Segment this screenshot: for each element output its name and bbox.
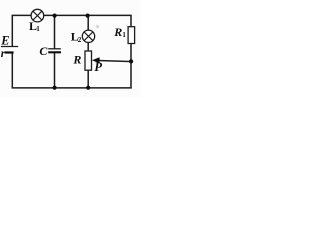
svg-text:R: R (72, 53, 81, 67)
svg-text:E: E (0, 33, 9, 47)
svg-text:R: R (113, 25, 122, 39)
svg-text:2: 2 (78, 36, 82, 44)
svg-text:r: r (1, 48, 6, 60)
svg-text:P: P (94, 60, 102, 74)
svg-text:1: 1 (122, 31, 126, 39)
svg-text:C: C (39, 44, 48, 58)
svg-text:1: 1 (36, 25, 40, 33)
